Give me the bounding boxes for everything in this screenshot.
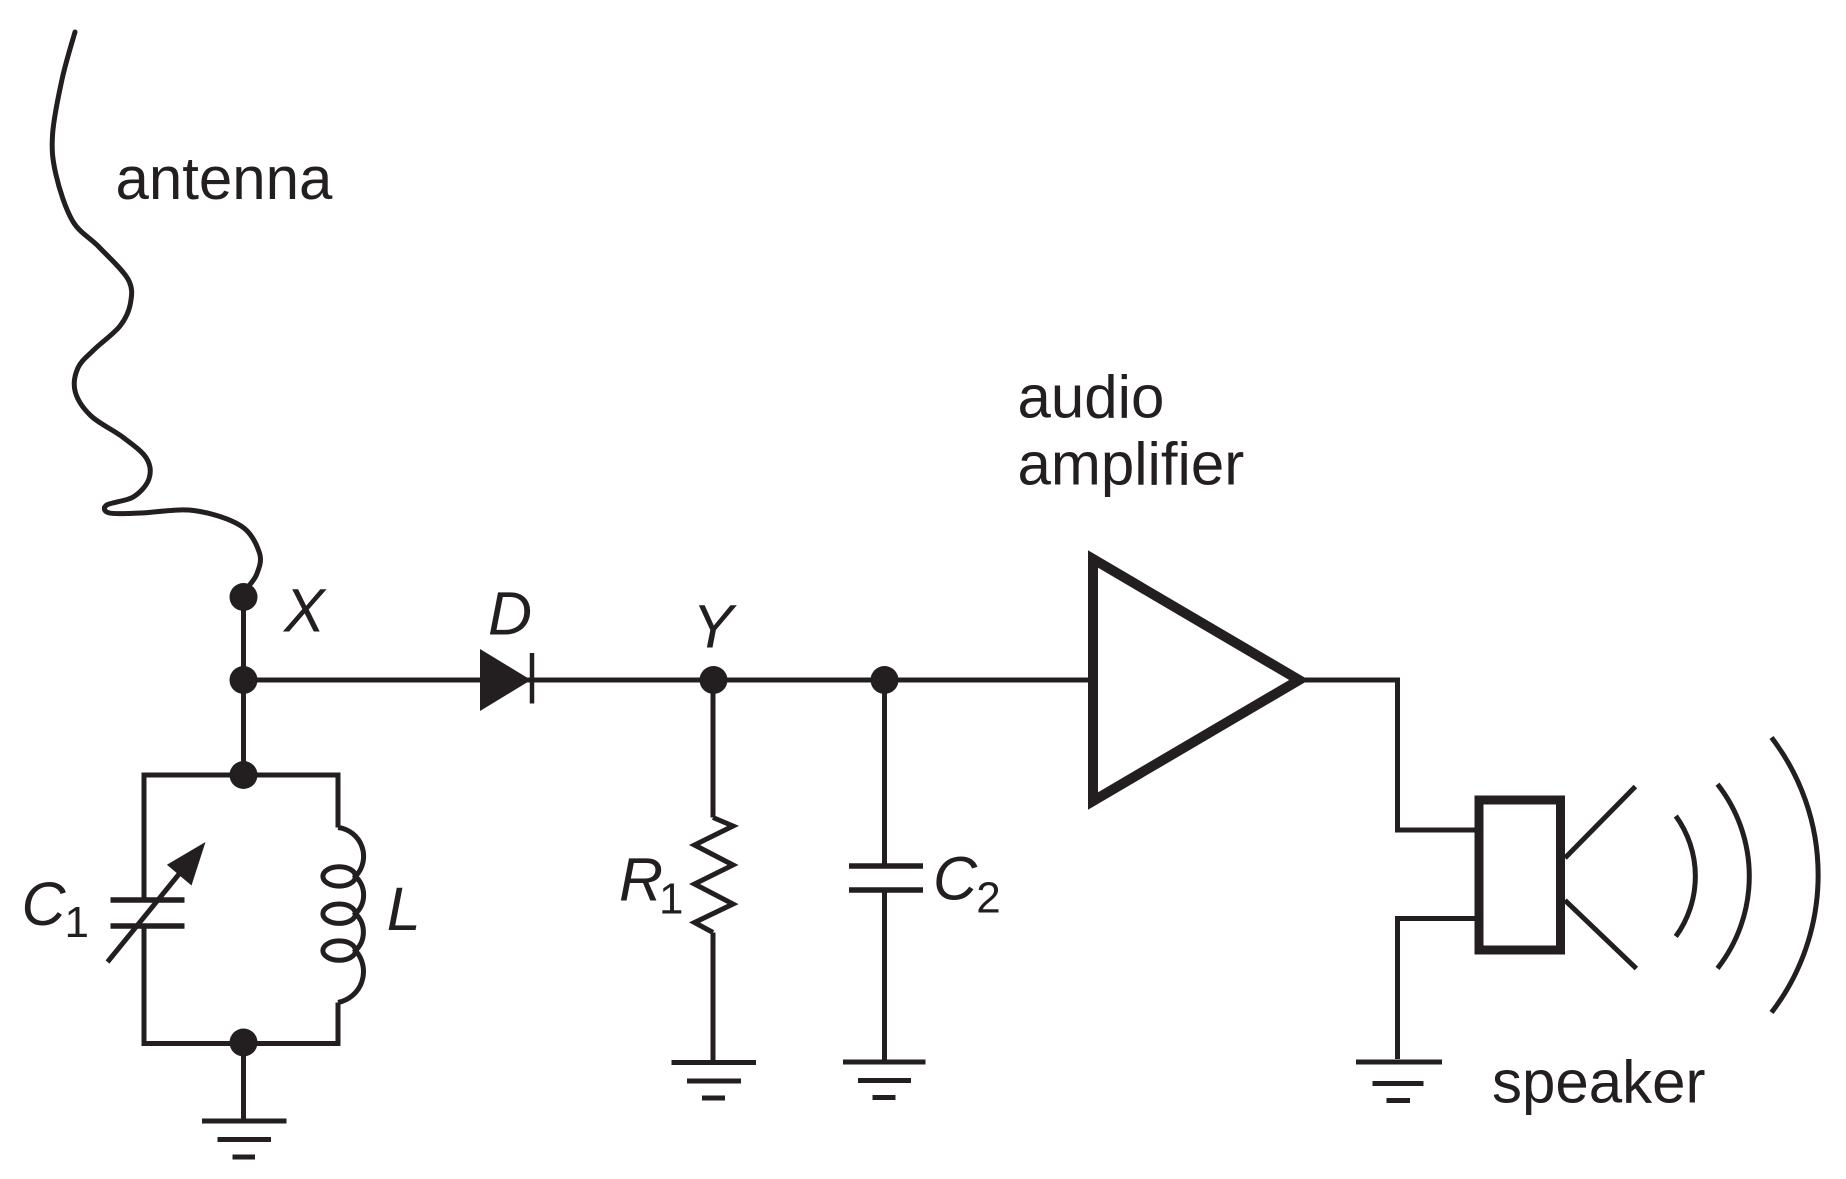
svg-text:C: C [22,870,67,938]
svg-text:1: 1 [659,875,683,924]
svg-text:L: L [387,875,421,943]
svg-text:audio: audio [1018,364,1165,431]
svg-text:1: 1 [65,898,89,947]
svg-text:speaker: speaker [1492,1049,1705,1116]
svg-text:X: X [282,577,327,645]
svg-text:R: R [619,846,663,914]
svg-text:D: D [488,580,532,648]
svg-text:Y: Y [693,593,738,661]
svg-text:amplifier: amplifier [1018,431,1245,498]
svg-text:antenna: antenna [116,145,334,212]
svg-text:C: C [933,845,978,913]
svg-text:2: 2 [976,874,1000,923]
